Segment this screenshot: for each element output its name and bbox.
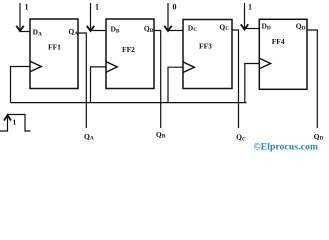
svg-text:FF3: FF3	[199, 41, 212, 50]
svg-text:1: 1	[248, 3, 252, 12]
svg-text:1: 1	[25, 3, 29, 12]
svg-text:0: 0	[173, 3, 177, 12]
svg-text:FF1: FF1	[48, 43, 61, 52]
svg-text:FF4: FF4	[272, 37, 285, 46]
svg-text:1: 1	[13, 118, 17, 127]
svg-text:FF2: FF2	[122, 45, 135, 54]
svg-text:©Elprocus.com: ©Elprocus.com	[254, 141, 319, 152]
svg-text:1: 1	[95, 3, 99, 12]
